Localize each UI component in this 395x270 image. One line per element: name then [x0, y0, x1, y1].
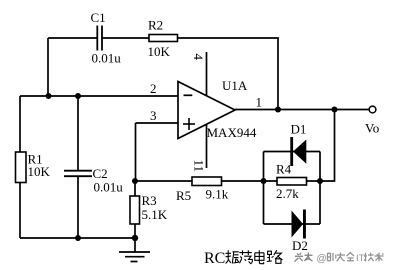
node: limiter right junction [317, 178, 323, 184]
op-amp inverting input minus sign [184, 94, 193, 96]
resistor R5 [192, 177, 222, 186]
svg-text:RC: RC [204, 250, 225, 267]
op-amp non-inverting input plus sign [183, 118, 195, 130]
wire: R5 to limiter left node [222, 180, 264, 182]
svg-text:IT: IT [356, 253, 365, 264]
svg-text:C1: C1 [91, 10, 106, 25]
caption CJK char: lu [267, 250, 283, 263]
wire: inverting input rail [20, 95, 178, 97]
wire: output [235, 109, 369, 111]
node: feedback / output junction [275, 107, 281, 113]
svg-text:@: @ [317, 254, 327, 265]
op-amp U1A [178, 82, 235, 139]
wire: R3 bottom lead [134, 224, 136, 238]
watermark: toutiao at wolonghui IT jishu [295, 253, 384, 265]
watermark chars: tou tiao [295, 253, 313, 262]
wire: node to R5 [135, 180, 192, 182]
svg-text:R2: R2 [148, 18, 163, 33]
wire: D2 branch bottom [264, 223, 321, 225]
node: C1 / inverting rail junction [46, 93, 52, 99]
svg-text:R3: R3 [142, 193, 157, 208]
wire: limiter right riser [319, 152, 321, 225]
node: R3 / ground junction [132, 235, 138, 241]
wire: left rail lower [19, 183, 21, 239]
wire: left rail upper [19, 96, 21, 152]
wire: C2 lower lead [77, 176, 79, 238]
wire: C1 left lead horizontal [48, 37, 97, 39]
wire: pin 4 power stub [206, 52, 208, 96]
diode D1 [290, 137, 306, 166]
resistor R2 [149, 35, 178, 42]
terminal Vo open circle [369, 106, 376, 113]
svg-text:3: 3 [150, 108, 157, 123]
resistor R3 [130, 196, 140, 224]
wire: ground rail [20, 237, 135, 239]
capacitor C2 [64, 171, 92, 177]
svg-text:Vo: Vo [365, 121, 379, 136]
svg-text:R5: R5 [176, 188, 191, 203]
svg-text:MAX944: MAX944 [207, 125, 257, 140]
wire: pin 3 vertical drop [135, 123, 137, 181]
wire: R3 top lead [134, 181, 136, 196]
svg-text:2: 2 [150, 81, 157, 96]
watermark chars: wo long hui [328, 253, 355, 262]
svg-text:0.01u: 0.01u [94, 180, 124, 195]
wire: C1 to R2 [103, 37, 150, 39]
svg-text:U1A: U1A [222, 78, 248, 93]
node: limiter left junction [261, 178, 267, 184]
wire: R4 row [264, 180, 321, 182]
wire: limiter left riser [263, 152, 265, 225]
svg-text:2.7k: 2.7k [276, 186, 299, 201]
ground symbol [119, 238, 150, 262]
caption CJK char: dian [255, 250, 264, 263]
wire: C1 branch vertical drop [47, 38, 49, 96]
svg-text:10K: 10K [148, 44, 171, 59]
caption: RC oscillator circuit title (RC Zhen Dang Dian Lu) [204, 250, 283, 267]
capacitor C1 [97, 26, 102, 51]
watermark chars: ji shu [364, 253, 384, 262]
svg-text:R4: R4 [276, 162, 292, 177]
wire: pin 3 horizontal [136, 122, 179, 124]
svg-text:1: 1 [256, 95, 263, 110]
wire: pin 11 power stub [206, 124, 208, 168]
svg-text:11: 11 [192, 160, 207, 173]
wire: R2 right to feedback corner down to output [178, 38, 279, 110]
svg-text:10K: 10K [28, 164, 51, 179]
wire: D1 branch top [264, 151, 321, 153]
wire: limiter to output riser [320, 110, 335, 182]
node: C2 / ground rail junction [75, 235, 81, 241]
svg-text:4: 4 [191, 54, 206, 61]
svg-text:9.1k: 9.1k [206, 187, 229, 202]
svg-text:5.1K: 5.1K [142, 207, 168, 222]
svg-text:D2: D2 [292, 238, 308, 253]
node: limiter / output junction [332, 107, 338, 113]
diode D2 [292, 210, 306, 239]
caption CJK char: dang [239, 250, 252, 264]
wire: C2 upper lead [77, 96, 79, 171]
svg-text:0.01u: 0.01u [92, 51, 122, 66]
resistor R1 [16, 152, 27, 183]
node: pin3 / R3 / R5 junction [132, 178, 138, 184]
node: C2 / inverting rail junction [75, 93, 81, 99]
caption CJK char: zhen [226, 250, 239, 263]
svg-text:D1: D1 [291, 122, 307, 137]
resistor R4 [277, 178, 307, 186]
